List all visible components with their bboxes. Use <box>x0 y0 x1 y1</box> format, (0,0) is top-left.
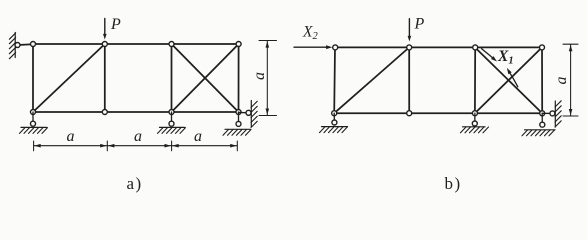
svg-text:P: P <box>414 16 425 33</box>
member top chord a <box>33 43 239 45</box>
member vertical V2b <box>408 47 410 113</box>
svg-text:a: a <box>67 128 75 145</box>
svg-text:b): b) <box>445 174 462 193</box>
wall pin circle <box>15 43 20 48</box>
member diagonal B1b-T2b <box>334 47 409 113</box>
member top chord b <box>335 46 542 48</box>
member vertical V2a <box>104 44 106 112</box>
member vertical V4b <box>541 47 543 113</box>
member vertical V3a <box>171 44 173 112</box>
node B3a <box>169 110 174 115</box>
node T3b <box>473 45 478 50</box>
dimension chain a,a,a (bottom, diagram a) <box>34 128 238 151</box>
member bottom chord b <box>334 112 542 114</box>
wall (left support wall, hatched) <box>9 33 15 59</box>
node B2a <box>102 110 107 115</box>
svg-text:a: a <box>134 128 142 145</box>
member diagonal B3b-T4b <box>475 47 542 113</box>
support pin under B1b <box>320 113 348 132</box>
node T3a <box>169 42 174 47</box>
support pin under B4a <box>223 112 251 135</box>
load P (diagram a) <box>103 16 121 40</box>
node B4b <box>540 111 545 116</box>
node B4a <box>236 110 241 115</box>
member diagonal T3b-B4b (cut member) <box>475 48 542 114</box>
support horizontal link right of B4a with wall <box>239 101 258 128</box>
svg-text:a: a <box>251 72 268 80</box>
node T1b <box>333 45 338 50</box>
support pin under B4b <box>522 113 555 136</box>
wire link wall pin to node T1a <box>18 43 34 46</box>
node B1b <box>332 111 337 116</box>
member vertical V4a <box>238 44 240 112</box>
node B1a <box>31 110 36 115</box>
dimension a (right side, diagram b) <box>553 44 578 116</box>
svg-text:P: P <box>110 16 121 33</box>
support pin under B3b <box>461 113 489 133</box>
force X1 arrow pair on cut diagonal <box>482 49 518 87</box>
node T2a <box>102 42 107 47</box>
member vertical V1b <box>333 47 336 113</box>
node B2b <box>407 111 412 116</box>
svg-text:X1: X1 <box>497 48 514 67</box>
svg-text:X2: X2 <box>302 24 318 43</box>
node T1a <box>31 42 36 47</box>
member vertical V3b <box>474 47 476 113</box>
member vertical V1a <box>32 44 34 112</box>
node T2b <box>407 45 412 50</box>
support pin under B3a <box>158 112 186 133</box>
svg-text:a: a <box>194 128 202 145</box>
node B3b <box>472 111 477 116</box>
support horizontal link right of B4b with wall <box>542 101 561 127</box>
dimension a (right side, diagram a) <box>251 41 277 116</box>
load P (diagram b) <box>408 16 425 42</box>
member bottom chord a <box>33 111 239 113</box>
member diagonal T3a-B4a <box>172 44 239 112</box>
node T4a <box>236 42 241 47</box>
support pin under B1a <box>20 112 48 133</box>
svg-text:a): a) <box>127 174 143 193</box>
member diagonal B1a-T2a <box>33 44 105 112</box>
node T4b <box>540 45 545 50</box>
member diagonal B3a-T4a <box>172 44 239 112</box>
force X2 arrow at T1b <box>294 24 332 50</box>
svg-text:a: a <box>553 77 570 85</box>
